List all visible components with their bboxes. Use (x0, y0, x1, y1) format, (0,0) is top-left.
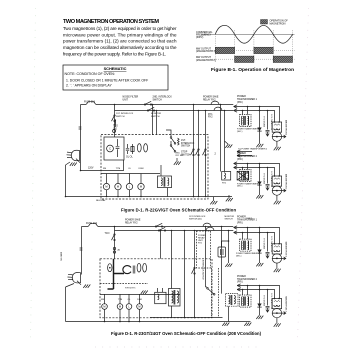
T1 primary leads (242, 111, 244, 115)
wire power transformer 2 primary feed 1 (234, 164, 280, 177)
HV diode D1 (259, 107, 261, 144)
svg-text:TRANSFORMER 1: TRANSFORMER 1 (237, 98, 258, 101)
magnetron MG2 antenna arrow (272, 189, 286, 192)
ground (magnetron 2) (276, 195, 278, 201)
T2 secondary winding (248, 171, 249, 180)
svg-text:FM: FM (103, 168, 106, 170)
wire control drop A (b) (184, 231, 186, 318)
svg-text:(SEC.): (SEC.) (237, 186, 243, 188)
label thermal cutout (113, 126, 118, 131)
AC plug (71, 150, 79, 160)
magnetron1 output block B (254, 47, 273, 53)
monitor switch contact (b) (158, 230, 159, 231)
wire relay feed (b) (222, 241, 229, 247)
wire plug neutral (b) (77, 281, 81, 285)
gridline 5 (292, 30, 294, 63)
label stop switch (181, 152, 191, 157)
svg-text:2. ' : ' APPEARS ON DISPLAY: 2. ' : ' APPEARS ON DISPLAY (66, 83, 112, 87)
wire control drop C (b) (205, 227, 207, 288)
svg-text:(SEC.): (SEC.) (237, 131, 243, 133)
connection arrow feed 2 (234, 109, 237, 112)
stirrer motor DSM (140, 174, 142, 184)
svg-text:(SEC.): (SEC.) (236, 256, 242, 258)
T2 secondary winding (248, 297, 249, 306)
oven lamp OL (b) (128, 294, 130, 304)
svg-text:TRANSFORMER 1: TRANSFORMER 1 (237, 218, 258, 221)
svg-text:MAIN SW: MAIN SW (60, 252, 63, 261)
wire control drop B (b) (194, 231, 196, 318)
T2 core (244, 297, 246, 306)
low voltage transformer T3 (158, 176, 172, 188)
svg-text:C: C (109, 147, 111, 151)
fuse F1 20A (b) (88, 223, 98, 226)
svg-text:FM: FM (101, 299, 104, 301)
ground (chassis near plug) (70, 163, 77, 166)
wire lamp/motor feed (101, 173, 160, 175)
2nd interlock switch contact (b) (155, 226, 156, 227)
svg-text:M: M (105, 185, 107, 189)
svg-text:(PRI.): (PRI.) (237, 159, 243, 161)
switch diagonal (b) (207, 288, 209, 290)
magnetron MG1 antenna arrow (272, 257, 286, 260)
svg-text:1ST.: 1ST. (181, 140, 186, 142)
relay contact A (193, 149, 194, 150)
label 208V (246, 218, 252, 220)
oven lamp socket 1 (137, 144, 141, 152)
svg-text:DSM: DSM (139, 168, 144, 170)
1st interlock switch (b) (114, 234, 115, 235)
magnetron MG2 anode circle (272, 186, 281, 195)
svg-text:POWER: POWER (237, 153, 246, 155)
svg-text:(PRI.): (PRI.) (237, 282, 243, 284)
svg-text:H.V. DIODE: H.V. DIODE (262, 117, 264, 128)
svg-text:RELAY RY2: RELAY RY2 (125, 221, 138, 224)
svg-text:microwave power output. The pr: microwave power output. The primary wind… (63, 32, 177, 37)
label 2 (215, 153, 217, 156)
dashed drop B (218, 268, 220, 318)
wire bottom bus short (b) (150, 317, 223, 319)
HV capacitor C1 (267, 111, 269, 130)
relay contact B (198, 149, 199, 150)
svg-text:M: M (138, 305, 140, 309)
thermal cutout (113, 130, 116, 133)
T2 primary leads (242, 290, 244, 296)
label power transformer 2 pri (237, 153, 258, 161)
wire relay feed A (220, 105, 222, 172)
power relay unit dashed box (197, 231, 211, 268)
label power transformer 1 pri (b) (237, 217, 258, 225)
triac box (237, 171, 249, 180)
wire filament transformer feed (b) (221, 227, 223, 294)
label power transformer 2 pri (b) (237, 276, 258, 284)
wire motor feed (b) (100, 294, 180, 296)
magnetron MG2 filament box (272, 299, 281, 309)
relay unit box (155, 292, 166, 303)
svg-text:SCHEMATIC: SCHEMATIC (104, 66, 127, 71)
wire relay feed B (224, 111, 226, 172)
T1 primary winding (243, 116, 244, 125)
ground (HV diode 2) (256, 316, 263, 319)
wire switch drop B (156, 111, 158, 135)
svg-text:H RY2 RY1: H RY2 RY1 (125, 287, 136, 289)
T2 primary winding (243, 297, 244, 306)
ground (triac b) (225, 264, 232, 267)
svg-text:NOISE FILTER: NOISE FILTER (123, 97, 139, 99)
svg-text:(PRI.): (PRI.) (237, 102, 243, 104)
wire triac drop (228, 231, 230, 264)
wire to power transformer 2 feed 2 (237, 154, 252, 157)
HV diode D2 (259, 286, 261, 316)
svg-text:MAGNETRON 2: MAGNETRON 2 (285, 174, 288, 190)
HV diode D2 (259, 164, 261, 196)
T1 secondary winding (248, 241, 249, 250)
oven TCO coil (115, 120, 116, 127)
NF capacitor C (107, 145, 114, 152)
sine waveform (215, 25, 292, 43)
relay RY1 component (218, 247, 226, 257)
stirrer motor DSM (b) (139, 294, 141, 304)
wire interlock drop (b) (114, 227, 116, 260)
svg-text:H.V. DIODE: H.V. DIODE (262, 296, 264, 307)
svg-text:120V: 120V (88, 168, 94, 170)
capacitor C2 (127, 144, 129, 148)
svg-text:M: M (140, 185, 142, 189)
svg-text:RY1: RY1 (208, 114, 213, 116)
magnetron1 output block A (215, 47, 234, 53)
svg-text:INTERLOCK SWITCH: INTERLOCK SWITCH (202, 260, 204, 280)
T2 primary leads (242, 168, 244, 170)
label relays (125, 287, 136, 289)
body paragraph (63, 26, 177, 57)
relay contact RY2 (214, 107, 222, 110)
label T2 sec (237, 182, 260, 187)
fan motor FM (106, 174, 108, 184)
ground (control b) (141, 291, 148, 294)
connection arrow feed 1 (234, 162, 237, 165)
svg-text:(PRI.): (PRI.) (237, 222, 243, 224)
ground (magnetron 2) (276, 318, 278, 324)
phase capacitor C (208V) (123, 266, 131, 274)
wire top bus L1 (b) (82, 226, 234, 228)
T1 core (244, 241, 246, 250)
svg-text:Figure B-1. Operation of Magne: Figure B-1. Operation of Magnetron (211, 67, 294, 73)
magnetron MG1 anode circle (272, 132, 281, 141)
magnetron1 output baseline (210, 49, 295, 51)
svg-text:SWITCH: SWITCH (181, 146, 191, 148)
svg-text:STOP: STOP (181, 152, 188, 154)
ground (control) (225, 145, 232, 148)
ground (HV diode 2) (256, 195, 263, 198)
ground (magnetron 1) (276, 141, 278, 147)
fuse F1 20A (86, 101, 96, 104)
ground (hv b) (244, 323, 251, 326)
svg-text:SWITCH: SWITCH (116, 116, 125, 118)
page edge dotted line left (31, 8, 36, 342)
wire neutral down left (65, 165, 67, 197)
label T1 sec (237, 128, 260, 133)
label power relay unit (198, 235, 206, 245)
ground (bus end b) (222, 323, 229, 326)
svg-text:power transformers (1), (2) ar: power transformers (1), (2) are connecte… (63, 39, 177, 44)
svg-text:(MAGNETRON 1): (MAGNETRON 1) (196, 50, 216, 53)
svg-text:POWER SAVE: POWER SAVE (125, 219, 141, 222)
wire power transformer 2 primary feed 2 (234, 168, 275, 177)
svg-text:TO POWER TRANSFORMER 2: TO POWER TRANSFORMER 2 (238, 147, 268, 150)
label power transformer 1 pri (237, 96, 258, 104)
svg-text:Figure D-1. R-22GV/GT Oven SCh: Figure D-1. R-22GV/GT Oven SChematic-OFF… (121, 208, 236, 213)
wire bus L2 (115, 110, 234, 112)
wire left drop to plug (b) (81, 227, 83, 275)
monitor switch contact (147, 110, 148, 111)
wire mid return (81, 160, 124, 171)
svg-text:2ND. INTERLOCK: 2ND. INTERLOCK (153, 97, 173, 99)
label 1st interlock (181, 140, 195, 148)
magnetron MG1 filament box (272, 122, 281, 132)
2nd interlock switch contact (144, 104, 145, 105)
oven lamp socket 2 (144, 144, 148, 152)
interlock spring (178, 138, 180, 145)
ground (HV diode 1) (256, 144, 263, 147)
svg-text:1. DOOR CLOSED OR 1 MINUTE A: 1. DOOR CLOSED OR 1 MINUTE AFTER COOK OF… (66, 78, 148, 82)
svg-text:INT. SW.: INT. SW. (176, 155, 184, 157)
magnetron MG2 antenna arrow (272, 312, 286, 315)
magnetron MG1 antenna arrow (272, 135, 286, 138)
ground (relay) (213, 197, 215, 201)
svg-text:OL OL: OL OL (126, 157, 133, 159)
magnetron2 output block A (235, 56, 254, 62)
control unit dashed box (101, 135, 208, 199)
sine centerline (201, 33, 295, 35)
wire power transformer 2 primary feed 2 (237, 290, 275, 299)
wire power transformer 1 primary feed 2 (234, 233, 275, 244)
power transformer T2 (dashed box) (240, 170, 251, 182)
LV transformer T3 (b) (169, 289, 181, 307)
ground (chassis near plug b) (83, 285, 90, 288)
svg-text:H.V. DIODE: H.V. DIODE (262, 239, 264, 250)
connector tick (79, 126, 82, 128)
label fuse 2 (86, 222, 97, 225)
T2 primary winding (243, 171, 244, 180)
wire control drop B (198, 111, 200, 197)
T3 leads (160, 165, 162, 176)
connection arrow feed 2 (237, 288, 240, 291)
svg-text:Two magnetrons (1), (2) are eq: Two magnetrons (1), (2) are equipped in … (63, 26, 177, 31)
label neutral (96, 199, 106, 202)
svg-text:(MAGNETRON 2): (MAGNETRON 2) (196, 59, 216, 62)
filament transformer dashed box (226, 294, 239, 307)
svg-text:MAGNETRON 1: MAGNETRON 1 (285, 120, 288, 136)
svg-text:UNIT: UNIT (123, 99, 129, 101)
svg-text:SWITCH (A1): SWITCH (A1) (189, 218, 202, 221)
power transformer T1 (dashed box) (240, 115, 251, 127)
wire switch drop A (152, 105, 154, 135)
svg-text:M: M (117, 185, 119, 189)
svg-text:TRANSFORMER 2: TRANSFORMER 2 (237, 155, 258, 158)
wire power transformer 2 primary feed 1 (237, 286, 280, 299)
connection arrow feed 1 (237, 284, 240, 287)
label 1st interlock (b) (189, 216, 206, 221)
label oven lamps (126, 157, 133, 159)
svg-text:TWO MAGNETRON OPERATION SYSTEM: TWO MAGNETRON OPERATION SYSTEM (63, 19, 159, 25)
gridline 3 (253, 30, 255, 63)
wire top bus L1 (81, 104, 234, 106)
label 2nd interlock switch (153, 97, 173, 102)
label relay contacts (208, 114, 213, 119)
oven lamp OL (129, 174, 131, 184)
gridline 2 (234, 30, 236, 63)
svg-text:TCO: TCO (105, 233, 110, 235)
wire interlock drop 2 (166, 130, 171, 145)
label monitor switch (b) (225, 216, 235, 221)
wire plug neutral (76, 159, 80, 163)
AC plug (b) (72, 272, 80, 282)
label 2nd interlock (176, 153, 184, 158)
turntable motor TTM (b) (119, 294, 121, 304)
svg-text:RELAY: RELAY (198, 236, 205, 239)
svg-text:POWER: POWER (237, 217, 246, 219)
power transformer T2 (dashed box) (240, 295, 251, 307)
svg-text:INTERLOCK: INTERLOCK (181, 143, 195, 145)
wire neutral down left (b) (65, 287, 67, 322)
svg-text:magnetron can be oscillated al: magnetron can be oscillated alternativel… (63, 45, 177, 50)
svg-text:M: M (119, 305, 121, 309)
svg-text:frequency of the power supply.: frequency of the power supply. Refer to … (63, 52, 166, 57)
svg-text:Figure D-1. R-23GT/24GT Oven: Figure D-1. R-23GT/24GT Oven SChematic-O… (111, 331, 262, 336)
svg-text:NEUTRAL: NEUTRAL (96, 199, 106, 202)
T1 primary winding (243, 241, 244, 250)
dashed drop A (211, 268, 213, 318)
connection arrow feed 1 (234, 226, 237, 229)
power relay RY1 box (222, 172, 231, 181)
svg-text:(60Hz): (60Hz) (196, 36, 204, 39)
relay contact RY1 (b) (203, 223, 211, 226)
magnetron MG1 anode circle (272, 254, 281, 263)
magnetron MG2 filament box (272, 176, 281, 186)
label power save relay 2 (125, 219, 141, 225)
svg-text:MAGNETRON 2: MAGNETRON 2 (285, 297, 288, 313)
magnetron MG1 filament box (272, 244, 281, 254)
page edge dotted line right (298, 8, 309, 342)
svg-text:SWITCH: SWITCH (225, 219, 234, 221)
internal dashed divider (100, 283, 148, 285)
HV diode D1 (259, 228, 261, 264)
wire power transformer 1 primary feed 1 (234, 228, 280, 244)
relay coil (oval) (108, 264, 112, 272)
NF choke (117, 139, 119, 146)
label noise filter unit (123, 97, 139, 102)
relay contact B (b) (194, 267, 195, 268)
ground (triac) (228, 195, 230, 198)
HV capacitor C2 (267, 168, 269, 184)
wire interlock drop (114, 105, 116, 138)
power transformer T1 (dashed box) (240, 239, 251, 251)
ground (interlock cluster) (176, 158, 178, 162)
label monitor switch (151, 113, 162, 118)
page edge dotted line bottom (95, 346, 262, 348)
magnetron2 output baseline (210, 58, 295, 60)
wire switch drop (b) (160, 231, 162, 259)
connector tick (b) (80, 247, 83, 249)
connection arrow feed 1 (234, 105, 237, 108)
ground (magnetron 1) (276, 263, 278, 269)
label A1 (118, 249, 121, 252)
wire bottom bus N (66, 196, 233, 198)
magnetron MG2 anode circle (272, 308, 281, 317)
svg-text:MAGNETRON: MAGNETRON (270, 22, 286, 25)
label power save relay (203, 96, 219, 102)
svg-text:H.V. DIODE: H.V. DIODE (262, 174, 264, 185)
T2 core (244, 171, 246, 180)
wire left drop to plug (80, 105, 82, 171)
gridline 4 (272, 30, 274, 63)
label TCO (b) (105, 233, 110, 235)
label 1st interlock switch (116, 113, 134, 118)
wire control drop C (205, 111, 207, 197)
label to power transformer (238, 147, 268, 150)
svg-text:M: M (103, 305, 105, 309)
T1 secondary winding (248, 116, 249, 125)
svg-text:RY2: RY2 (208, 117, 213, 119)
relay contact C (205, 149, 206, 150)
svg-text:POWER SAVE: POWER SAVE (203, 96, 219, 99)
connection arrow feed 2 (234, 231, 237, 234)
HV capacitor C1 (267, 233, 269, 252)
label 120V (88, 168, 94, 170)
HV capacitor C2 (267, 290, 269, 306)
lamp socket pair (b) (137, 263, 141, 272)
relay contact RY2 (b) (206, 227, 214, 230)
primary interlock switch (170, 137, 172, 139)
wire bottom bus N (b) (66, 321, 251, 323)
svg-text:TTM: TTM (116, 168, 121, 170)
wire power transformer 1 primary feed 1 (234, 107, 280, 123)
ground (HV diode 1) (256, 263, 263, 266)
wire control drop A (193, 105, 195, 197)
wire bus L2 (b) (115, 230, 234, 232)
bold live circuit path (108, 259, 125, 289)
svg-text:NOTE: CONDITION OF OVEN:: NOTE: CONDITION OF OVEN: (65, 72, 115, 76)
svg-text:MAGNETRON 1: MAGNETRON 1 (285, 242, 288, 258)
wire power transformer 1 primary feed 2 (234, 111, 275, 123)
T1 core (244, 116, 246, 125)
1st interlock switch (114, 115, 115, 116)
svg-text:POWER: POWER (237, 276, 246, 278)
noise filter box (104, 137, 124, 160)
magnetron2 output block B (273, 56, 292, 62)
secondary interlock switch (170, 145, 172, 147)
wire to power transformer 2 feed 1 (237, 150, 252, 153)
svg-text:POWER: POWER (237, 96, 246, 98)
control unit dashed box (b) (100, 259, 212, 318)
relay contact RY1 (211, 101, 219, 104)
label fuse (84, 101, 95, 104)
T1 primary leads (242, 233, 244, 240)
label T1 sec (b) (236, 252, 259, 257)
wire T3 feed (b) (171, 231, 173, 289)
svg-text:TRANSFORMER 2: TRANSFORMER 2 (237, 278, 258, 281)
varistor RV1 (132, 144, 134, 154)
connection arrow feed 2 (234, 166, 237, 169)
svg-text:SWITCH: SWITCH (153, 99, 163, 101)
turntable motor TTM (117, 174, 119, 184)
legend swatch (261, 20, 268, 25)
fan motor FM (b) (104, 294, 106, 304)
connector circles A1 (113, 247, 115, 249)
gridline 1 (214, 34, 216, 62)
